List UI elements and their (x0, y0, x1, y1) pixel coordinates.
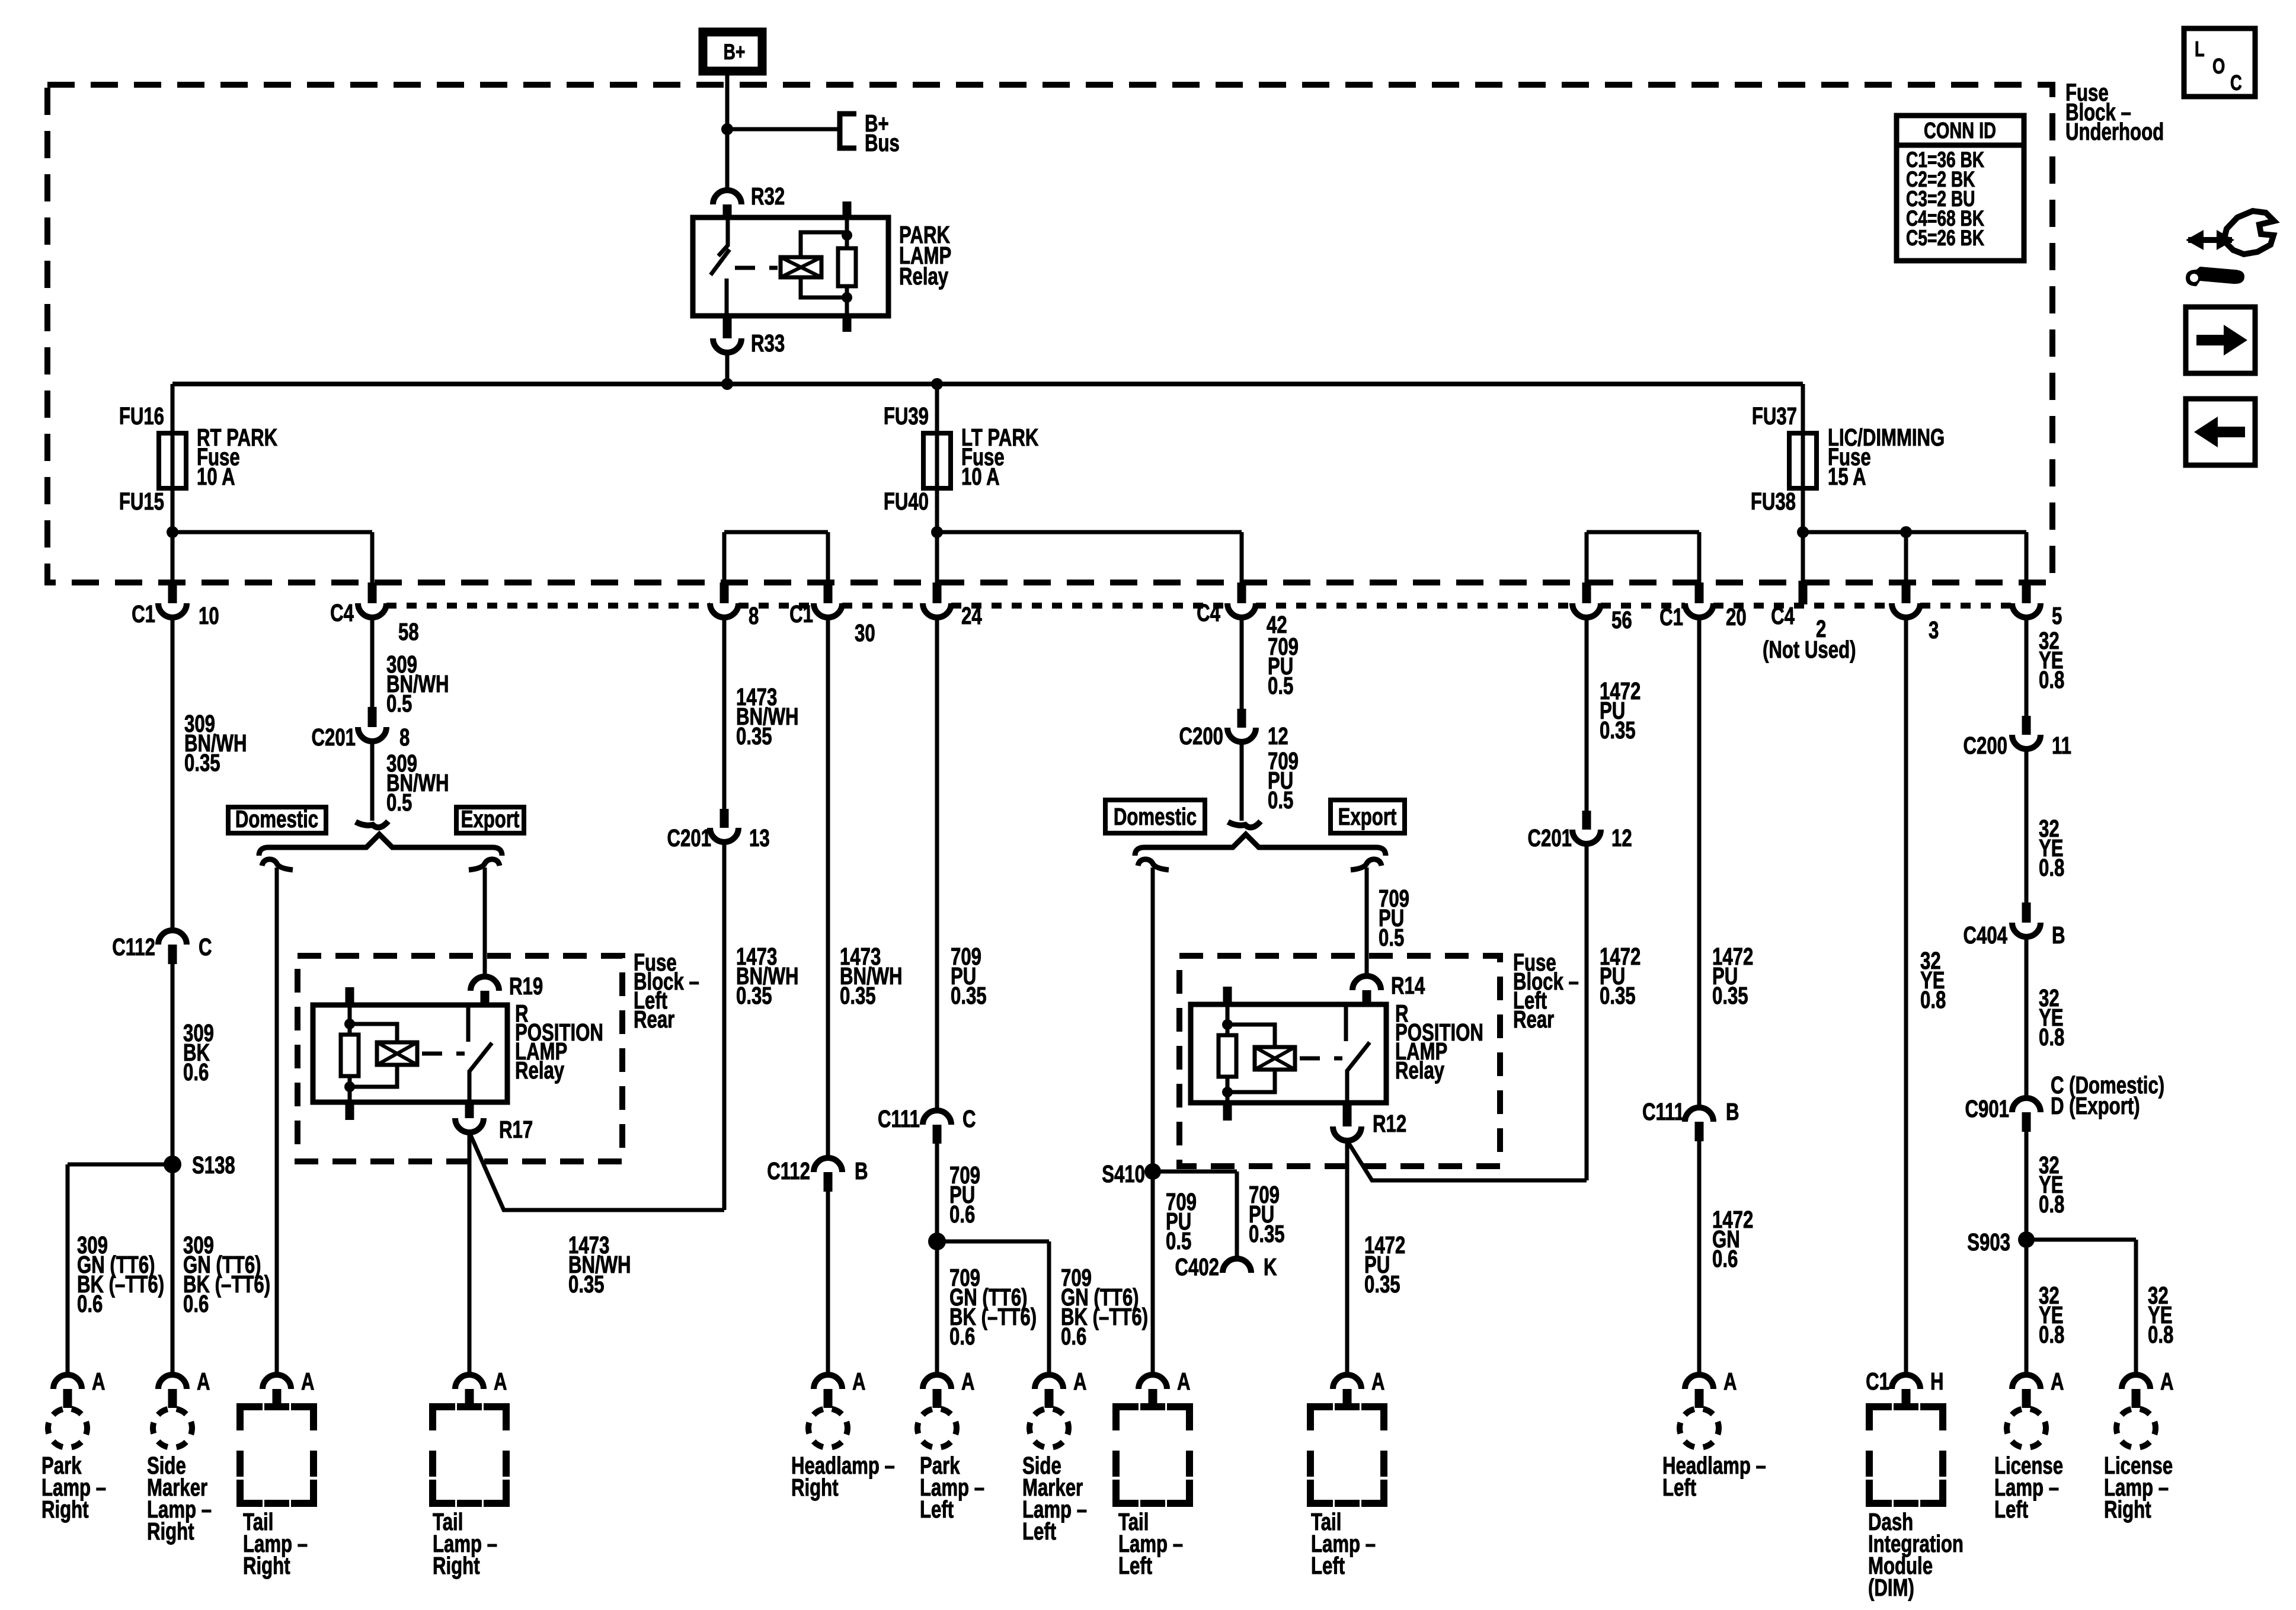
node S410 splice (1144, 1163, 1161, 1180)
svg-text:0.8: 0.8 (2039, 854, 2064, 881)
B+ power feed box (703, 32, 762, 71)
svg-text:0.35: 0.35 (1249, 1220, 1285, 1247)
lamp License Lamp Left (2007, 1409, 2046, 1448)
connector pin A at Tail Lamp Right 1 (263, 1375, 291, 1389)
svg-text:A: A (494, 1368, 507, 1395)
connector C901 (2012, 1098, 2041, 1112)
svg-text:5: 5 (2052, 602, 2062, 629)
svg-text:S138: S138 (192, 1151, 235, 1179)
connector R32 (713, 190, 741, 204)
svg-text:Right: Right (243, 1552, 290, 1579)
wire 709 PU 0.5 C4-42 down (1240, 617, 1244, 713)
wire S903 branch to license right (2026, 1238, 2136, 1242)
svg-text:C112: C112 (112, 933, 155, 961)
connector C112 pin C (158, 930, 187, 945)
svg-text:A: A (2051, 1368, 2064, 1395)
svg-text:A: A (852, 1368, 866, 1395)
svg-text:B: B (855, 1157, 868, 1185)
svg-text:15 A: 15 A (1828, 463, 1866, 490)
svg-text:Left: Left (1994, 1496, 2028, 1523)
svg-text:0.35: 0.35 (736, 722, 772, 750)
connector pin 3 (1902, 582, 1911, 603)
svg-text:Domestic: Domestic (235, 805, 318, 833)
wire 709 PU 0.6 (935, 1144, 939, 1241)
Domestic tag box 1 (228, 807, 326, 833)
wire 1472 GN 0.6 to headlamp left (1697, 1141, 1702, 1376)
right arrow nav box (2186, 307, 2255, 373)
svg-text:Domestic: Domestic (1114, 803, 1197, 830)
wire C201-13 down to R17 link (722, 842, 727, 1210)
svg-text:0.8: 0.8 (2039, 1190, 2064, 1218)
wire domestic branch 2 down (1138, 859, 1169, 870)
Domestic tag box 2 (1105, 800, 1205, 833)
wire export branch 2 to R14 (1351, 859, 1382, 870)
svg-text:C4: C4 (1771, 602, 1795, 629)
svg-text:K: K (1264, 1253, 1277, 1281)
wire end break 2 (1228, 821, 1261, 827)
svg-text:0.35: 0.35 (1600, 982, 1636, 1009)
wire 32 YE 0.8 pin 3 down to DIM (1904, 617, 1908, 1376)
svg-text:0.5: 0.5 (1166, 1227, 1191, 1254)
svg-text:0.6: 0.6 (183, 1290, 209, 1317)
svg-text:Export: Export (1338, 803, 1397, 830)
connector C201 pin 13 (720, 809, 729, 828)
connector R19 (471, 977, 499, 991)
fuse FU39 LT PARK 10A (935, 384, 939, 532)
connector C200 pin 11 (2022, 716, 2031, 735)
svg-text:0.35: 0.35 (184, 749, 220, 776)
connector pin 8 (720, 582, 729, 603)
wire S903 to license left (2025, 1240, 2029, 1376)
svg-text:10: 10 (199, 602, 219, 629)
wire to park lamp left (935, 1241, 939, 1376)
connector C201 pin 12 (1582, 811, 1591, 830)
wire FU15 branch to C1-10 and C4-58 (167, 526, 178, 538)
fuse block left rear 2 dashed border (1179, 956, 1500, 1166)
connector pin A at Tail Lamp Left 2 (1333, 1375, 1361, 1389)
svg-text:R19: R19 (509, 972, 543, 1000)
lamp Tail Lamp Left 2 (1310, 1407, 1384, 1503)
svg-text:0.35: 0.35 (736, 982, 772, 1009)
svg-text:FU16: FU16 (119, 402, 164, 430)
svg-text:0.6: 0.6 (1061, 1323, 1086, 1350)
connector pin A at Park Lamp Left (923, 1375, 951, 1389)
fuse block underhood dashed border (47, 85, 2052, 582)
node S903 splice (2018, 1231, 2035, 1248)
svg-text:0.5: 0.5 (1268, 672, 1293, 699)
connector C1 pin 20 (1695, 582, 1704, 603)
svg-text:13: 13 (749, 824, 770, 852)
svg-text:Right: Right (433, 1552, 480, 1579)
svg-text:0.6: 0.6 (1712, 1245, 1738, 1272)
stub pin 2 not used (1799, 581, 1808, 604)
wire end break (356, 821, 388, 827)
wire 32 YE 0.8 pin 5 down (2025, 617, 2029, 717)
wire S410 branch to C402 (1153, 1170, 1237, 1174)
svg-text:CONN ID: CONN ID (1924, 118, 1996, 143)
lamp Headlamp Left (1680, 1409, 1719, 1448)
svg-text:(Not Used): (Not Used) (1763, 636, 1856, 663)
svg-text:58: 58 (398, 618, 419, 645)
svg-text:C4: C4 (1197, 599, 1220, 626)
svg-text:Relay: Relay (899, 263, 949, 290)
wire 1473 BN/WH 0.35 pin 8 down (722, 617, 727, 810)
svg-text:0.5: 0.5 (1379, 924, 1404, 951)
svg-text:0.35: 0.35 (1712, 982, 1748, 1009)
wire 709 PU 0.5 to split 2 (1240, 742, 1244, 821)
svg-text:0.35: 0.35 (1364, 1270, 1400, 1298)
svg-text:10 A: 10 A (961, 463, 1000, 490)
wire 309 BN/WH 0.5 to split (370, 741, 375, 821)
connector pin H at Dash Integration Module (1892, 1375, 1920, 1389)
svg-text:B+: B+ (724, 39, 746, 64)
wire bridge pins 8 to C1-30 (724, 530, 828, 534)
node B+ bus tap (721, 123, 733, 135)
svg-text:56: 56 (1611, 606, 1632, 633)
svg-text:C201: C201 (667, 824, 711, 852)
wire FU38 branch to pins 2,3,5 (1797, 526, 1809, 538)
svg-text:C4: C4 (330, 599, 354, 626)
svg-text:R32: R32 (751, 183, 785, 210)
wire 1472 PU 0.35 pin 56 down (1585, 617, 1589, 812)
svg-text:C404: C404 (1964, 921, 2008, 949)
svg-text:FU15: FU15 (119, 488, 164, 515)
svg-text:O: O (2212, 54, 2225, 78)
node splice to side marker (928, 1233, 946, 1250)
svg-text:Right: Right (2104, 1496, 2151, 1523)
svg-text:Relay: Relay (1395, 1057, 1445, 1084)
svg-text:A: A (197, 1368, 210, 1395)
svg-text:A: A (961, 1368, 975, 1395)
CONN ID table (1897, 116, 2024, 261)
connector pin A at License Lamp Left (2012, 1375, 2041, 1389)
Export tag box 1 (456, 807, 524, 833)
svg-text:R12: R12 (1373, 1110, 1406, 1137)
svg-text:A: A (1177, 1368, 1191, 1395)
svg-text:C901: C901 (1965, 1095, 2009, 1122)
svg-text:S410: S410 (1102, 1160, 1145, 1188)
svg-text:C111: C111 (878, 1105, 920, 1132)
lamp Park Lamp Right (48, 1409, 87, 1448)
wire export branch to R19 (469, 859, 500, 870)
svg-text:Left: Left (1022, 1518, 1056, 1545)
svg-text:FU38: FU38 (1751, 488, 1796, 515)
svg-text:10 A: 10 A (197, 463, 235, 490)
lamp License Lamp Right (2116, 1409, 2156, 1448)
connector pin A at Headlamp Left (1685, 1375, 1713, 1389)
svg-text:C1: C1 (1866, 1368, 1889, 1395)
lamp Side Marker Lamp Left (1029, 1409, 1069, 1448)
svg-text:8: 8 (749, 602, 759, 629)
svg-text:Left: Left (1118, 1552, 1152, 1579)
connector pin 24 (933, 582, 942, 603)
svg-text:Export: Export (461, 805, 520, 833)
left arrow nav box (2186, 399, 2255, 465)
connector C111 pin B (1685, 1108, 1713, 1122)
wire S138 branch to park lamp right (68, 1163, 172, 1167)
svg-text:0.6: 0.6 (77, 1290, 103, 1317)
svg-text:C200: C200 (1964, 732, 2007, 759)
brace domestic/export 2 (1135, 834, 1386, 856)
wire 1473 BN/WH 0.35 C1-30 down (826, 617, 830, 1159)
svg-text:R17: R17 (499, 1116, 533, 1143)
svg-text:C1: C1 (132, 600, 155, 628)
svg-text:C201: C201 (312, 724, 356, 751)
wire R12 link to pin 56 wire (1347, 1141, 1587, 1180)
wire B+ down to R32 (725, 72, 730, 193)
fuse FU16 RT PARK 10A (159, 433, 186, 488)
svg-text:C5=26 BK: C5=26 BK (1906, 225, 1984, 250)
svg-text:20: 20 (1726, 603, 1747, 630)
svg-text:B: B (2052, 921, 2065, 949)
Export tag box 2 (1331, 800, 1405, 833)
svg-text:Underhood: Underhood (2065, 118, 2164, 145)
svg-text:0.5: 0.5 (1268, 786, 1293, 814)
svg-text:FU37: FU37 (1752, 402, 1797, 430)
svg-text:0.8: 0.8 (2039, 1321, 2064, 1348)
svg-text:11: 11 (2052, 732, 2071, 759)
wire 709 PU 0.35 pin 24 down (935, 617, 939, 1112)
svg-text:C201: C201 (1528, 824, 1572, 852)
wire domestic branch to tail lamp right (262, 859, 293, 870)
svg-text:0.5: 0.5 (386, 690, 412, 717)
svg-text:12: 12 (1268, 722, 1288, 750)
svg-text:D (Export): D (Export) (2051, 1092, 2140, 1119)
svg-text:Rear: Rear (634, 1006, 674, 1033)
connector pin 5 (2022, 582, 2031, 603)
wire 1472 PU 0.35 C1-20 down (1697, 617, 1702, 1108)
svg-text:A: A (1073, 1368, 1087, 1395)
connector C200 pin 12 (1237, 709, 1246, 728)
svg-text:Rear: Rear (1513, 1006, 1554, 1033)
svg-text:S903: S903 (1967, 1228, 2010, 1256)
node S138 splice (164, 1156, 181, 1173)
svg-text:0.35: 0.35 (568, 1270, 605, 1298)
svg-text:R14: R14 (1391, 972, 1425, 999)
svg-text:Right: Right (791, 1474, 839, 1501)
wire 32 YE 0.8 (2025, 937, 2029, 1098)
lamp Side Marker Lamp Right (153, 1409, 192, 1448)
svg-text:C112: C112 (767, 1157, 810, 1185)
svg-text:B: B (1726, 1098, 1739, 1125)
connector R33 (723, 316, 732, 338)
brace domestic/export 1 (259, 834, 502, 856)
wire 32 YE 0.8 (2025, 749, 2029, 904)
lamp Tail Lamp Right 2 (433, 1407, 506, 1503)
connector pin A at License Lamp Right (2122, 1375, 2150, 1389)
connector C402 pin K (1223, 1259, 1251, 1273)
svg-text:C200: C200 (1179, 722, 1223, 750)
wire R17 link to C201-13 wire (469, 1132, 724, 1210)
lamp Dash Integration Module (1869, 1407, 1943, 1503)
svg-text:12: 12 (1611, 824, 1632, 852)
svg-text:A: A (2160, 1368, 2174, 1395)
connector C404 pin B (2022, 902, 2031, 923)
svg-text:Left: Left (1662, 1474, 1696, 1501)
svg-text:(DIM): (DIM) (1868, 1574, 1914, 1601)
connector R12 (1343, 1103, 1352, 1126)
connector pin A at Tail Lamp Right 2 (455, 1375, 484, 1389)
relay PARK LAMP (693, 217, 888, 316)
connector pin A at Side Marker Lamp Right (158, 1375, 187, 1389)
wire S410 to tail lamp left (1151, 1172, 1155, 1376)
lamp Tail Lamp Left 1 (1116, 1407, 1189, 1503)
wire R17 to tail lamp right 2 (468, 1132, 472, 1376)
svg-text:Left: Left (1311, 1552, 1345, 1579)
svg-text:0.8: 0.8 (1920, 986, 1946, 1013)
wire C201-12 down to R12 link (1585, 844, 1589, 1180)
connector C201 pin 8 (368, 707, 377, 727)
connector pin A at Headlamp Right (814, 1375, 842, 1389)
svg-text:Right: Right (41, 1496, 89, 1523)
svg-text:FU39: FU39 (884, 402, 929, 430)
svg-text:C402: C402 (1175, 1253, 1219, 1281)
connector R17 (465, 1102, 474, 1118)
connector C112 pin B (814, 1158, 842, 1172)
lamp Tail Lamp Right 1 (240, 1407, 314, 1503)
svg-text:0.35: 0.35 (1600, 716, 1636, 744)
svg-text:0.35: 0.35 (951, 982, 987, 1009)
wire S138 down to side marker right (171, 1164, 175, 1376)
svg-text:L: L (2195, 37, 2205, 61)
svg-text:FU40: FU40 (884, 488, 929, 515)
svg-text:0.6: 0.6 (949, 1201, 975, 1228)
svg-text:0.6: 0.6 (183, 1058, 209, 1086)
svg-text:A: A (301, 1368, 315, 1395)
svg-text:Relay: Relay (515, 1057, 565, 1084)
svg-text:A: A (1723, 1368, 1737, 1395)
connector C4 pin 42 (1237, 582, 1246, 603)
dotted connector row (386, 603, 710, 609)
wire 32 YE 0.8 to S903 (2025, 1132, 2029, 1240)
wire to headlamp right (826, 1192, 830, 1376)
lamp Park Lamp Left (917, 1409, 957, 1448)
svg-text:3: 3 (1929, 616, 1939, 644)
connector pin A at Side Marker Lamp Left (1035, 1375, 1063, 1389)
service information icon (2188, 237, 2232, 243)
svg-text:0.5: 0.5 (386, 789, 412, 816)
svg-text:30: 30 (855, 619, 875, 646)
connector pin A at Tail Lamp Left 1 (1139, 1375, 1167, 1389)
svg-text:0.35: 0.35 (840, 982, 876, 1009)
wire R33 to bus (725, 353, 730, 384)
wire FU40 branch to 24 and C4-42 (931, 526, 943, 538)
fuse block left rear 1 dashed border (298, 956, 622, 1161)
wire 309 BN/WH 0.5 C4-58 down (370, 617, 375, 709)
connector C1 pin 30 (824, 582, 833, 603)
svg-text:C1: C1 (1659, 603, 1683, 630)
svg-text:C: C (199, 933, 212, 961)
connector pin A at Park Lamp Right (53, 1375, 82, 1389)
svg-text:C: C (2230, 71, 2242, 95)
relay R POSITION LAMP 2 (1191, 1004, 1386, 1103)
svg-text:A: A (1371, 1368, 1385, 1395)
svg-text:A: A (92, 1368, 105, 1395)
svg-text:0.8: 0.8 (2039, 666, 2064, 693)
connector C111 pin C (923, 1110, 951, 1125)
wire 309 BK 0.6 (171, 964, 175, 1164)
svg-text:0.6: 0.6 (949, 1323, 975, 1350)
svg-text:Bus: Bus (865, 129, 900, 156)
svg-text:C111: C111 (1642, 1098, 1684, 1125)
relay R POSITION LAMP 1 (313, 1005, 507, 1102)
wire 309 BN/WH 0.35 C1-10 down (171, 617, 175, 932)
svg-text:C1: C1 (789, 600, 813, 628)
svg-text:24: 24 (961, 602, 982, 629)
LOC reference box (2184, 28, 2255, 97)
connector C4 pin 58 (368, 582, 377, 603)
svg-text:8: 8 (399, 724, 410, 751)
svg-text:C: C (962, 1105, 976, 1132)
svg-text:0.8: 0.8 (2039, 1023, 2064, 1051)
fuse FU37 LIC/DIMMING 15A (1789, 433, 1817, 488)
svg-text:H: H (1930, 1368, 1944, 1395)
wire R12 to tail lamp left 2 (1345, 1141, 1350, 1376)
svg-text:R33: R33 (751, 329, 785, 357)
connector R14 (1352, 976, 1381, 990)
wire bridge pins 56 to C1-20 (1587, 530, 1699, 534)
lamp Headlamp Right (808, 1409, 848, 1448)
connector C1 pin 10 (168, 582, 177, 603)
svg-text:0.8: 0.8 (2148, 1321, 2173, 1348)
svg-text:Left: Left (920, 1496, 954, 1523)
connector pin 56 (1582, 582, 1591, 603)
wire branch to side marker left (937, 1240, 1049, 1244)
svg-text:Right: Right (147, 1518, 194, 1545)
wire main feed bus (172, 382, 1803, 386)
